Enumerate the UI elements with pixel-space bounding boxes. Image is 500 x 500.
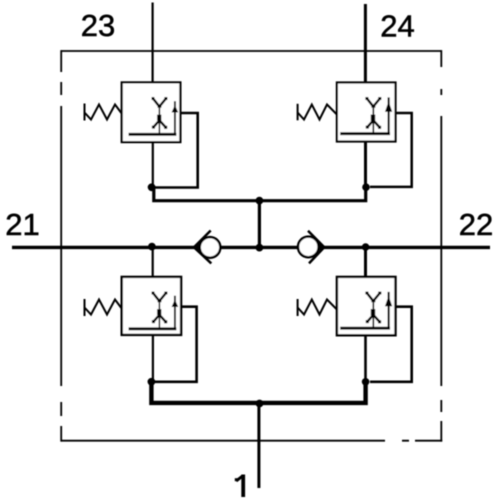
pilot line TL valve	[155, 113, 198, 188]
check valve CV2 (right)	[298, 231, 325, 264]
main bus segment between check valves	[220, 246, 299, 249]
pilot line BR valve	[370, 307, 412, 382]
enclosure boundary bottom edge	[61, 440, 442, 442]
spring BR	[298, 299, 337, 316]
relief valve TL inner symbol	[130, 97, 178, 134]
relief valve TR box	[337, 83, 396, 142]
wire: BR branch above valve	[364, 247, 367, 277]
svg-text:23: 23	[81, 8, 115, 43]
relief valve TL box	[122, 82, 181, 142]
spring TR	[298, 104, 337, 121]
port 21 line	[12, 246, 195, 249]
wire: BL branch above valve	[152, 247, 154, 277]
enclosure boundary right edge	[440, 50, 442, 442]
junction dot TL pilot	[148, 183, 156, 191]
relief valve BR inner symbol	[342, 292, 393, 329]
enclosure boundary (chain line) top edge	[61, 50, 441, 52]
enclosure boundary left edge	[60, 50, 62, 442]
junction dot BL pilot	[148, 378, 156, 386]
spring BL	[85, 299, 122, 316]
junction dot upper bus center	[256, 197, 264, 205]
junction dot port 1	[256, 400, 264, 408]
junction dot main bus left	[148, 243, 156, 251]
label 1	[235, 475, 243, 498]
svg-text:24: 24	[380, 9, 414, 44]
relief valve BL box	[122, 277, 181, 335]
port 1 line	[257, 403, 260, 488]
wire: TL branch below valve	[152, 142, 154, 187]
port 22 line	[324, 246, 490, 249]
lower manifold to port 1	[151, 382, 365, 403]
wire: BR branch below valve	[364, 335, 367, 382]
wire: center drop from upper bus to main bus	[258, 201, 261, 248]
svg-text:21: 21	[5, 207, 39, 242]
wire: TR branch below valve	[364, 142, 367, 188]
wire: BL branch below valve	[152, 335, 154, 382]
junction dot BR pilot	[362, 378, 370, 386]
pilot line BL valve	[155, 307, 197, 382]
junction dot TR pilot	[362, 183, 370, 191]
spring TL	[85, 104, 122, 121]
pilot line TR valve	[370, 113, 412, 187]
port 23 line	[152, 3, 154, 83]
wire: upper bus U-connection	[154, 187, 366, 201]
relief valve BR box	[337, 277, 396, 335]
check valve CV1 (left)	[193, 231, 220, 264]
junction dot main bus center	[256, 244, 264, 252]
relief valve TR inner symbol	[342, 97, 393, 134]
junction dot main bus right	[362, 243, 370, 251]
port 24 line	[364, 4, 367, 83]
relief valve BL inner symbol	[130, 292, 178, 329]
svg-text:22: 22	[459, 207, 493, 242]
